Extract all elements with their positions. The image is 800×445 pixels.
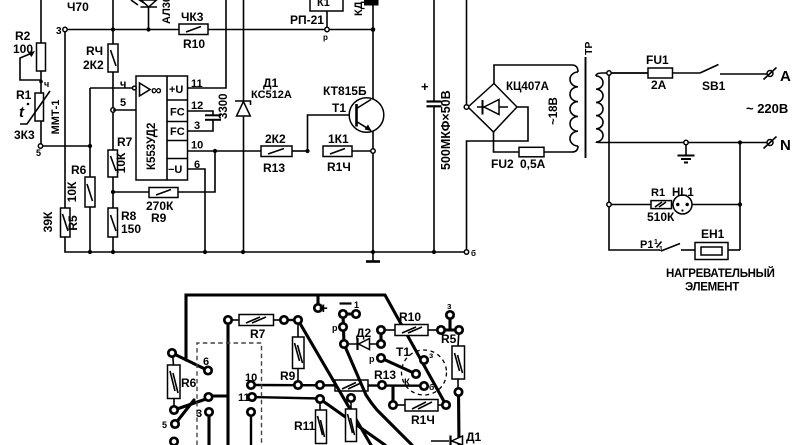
svg-text:1: 1 (659, 246, 663, 253)
svg-text:R1: R1 (16, 88, 32, 102)
svg-text:150: 150 (121, 222, 141, 236)
svg-text:Т1: Т1 (332, 101, 346, 115)
pcb resistor R14 (393, 400, 446, 428)
pin 12 wire (188, 111, 214, 115)
pin5 node circle (111, 108, 115, 112)
resistor R4 2K2 (83, 44, 118, 72)
svg-text:FU1: FU1 (646, 53, 669, 67)
pcb pads (168, 304, 462, 445)
bridge + output node (464, 105, 469, 110)
relay K1 RP-21 (290, 0, 343, 42)
resistor R2 100 (trimmer) (13, 29, 46, 80)
svg-text:R1: R1 (651, 187, 665, 199)
wire to R2 from top (40, 0, 42, 43)
relay contact P1.1 (640, 239, 695, 253)
R1 tap node (607, 202, 611, 206)
pcb trace vertical x228 (226, 320, 229, 445)
svg-text:з: з (429, 350, 433, 360)
resistor R13 2K2 (261, 132, 308, 175)
pcb trace to K pad (381, 358, 416, 374)
pcb resistor R6 (168, 353, 197, 410)
svg-text:R9: R9 (151, 211, 167, 225)
svg-text:2К2: 2К2 (83, 58, 104, 72)
pin 4 input wire (90, 87, 133, 89)
wire 470 resistor from top (112, 0, 114, 44)
op-amp U1 K553UD2 body (136, 76, 188, 180)
pcb diode D2 (344, 326, 381, 350)
svg-text:FC: FC (170, 107, 185, 119)
svg-text:~18В: ~18В (548, 97, 560, 125)
svg-text:1: 1 (654, 239, 658, 246)
svg-text:R11: R11 (294, 419, 316, 433)
svg-text:1К1: 1К1 (328, 132, 349, 146)
pcb T1 dashed circle (402, 350, 447, 395)
svg-text:10К: 10К (65, 181, 79, 202)
svg-text:К553УД2: К553УД2 (146, 123, 158, 170)
svg-text:FU2: FU2 (491, 157, 514, 171)
pcb trace vertical x209 (207, 412, 210, 445)
wire node5 to junction (43, 145, 90, 147)
pcb trace pad6 diag (172, 353, 208, 371)
svg-text:+U: +U (169, 84, 183, 96)
pcb resistor R11 (294, 399, 327, 444)
resistor R7 10K (108, 112, 133, 208)
pcb trace diag from R9 top (298, 320, 371, 445)
capacitor 3300 (205, 93, 230, 119)
phase tap wire down (608, 75, 610, 202)
N side vertical (739, 143, 741, 251)
svg-text:р: р (323, 33, 328, 42)
pcb trace node3 stub (448, 315, 451, 330)
terminal A (764, 68, 792, 86)
fuse FU2 0.5A (491, 147, 572, 171)
transformer TP secondary ~18V (548, 72, 578, 152)
node б rail end (464, 250, 468, 254)
pcb trace R5 down (457, 392, 461, 445)
svg-text:+: + (319, 300, 328, 317)
switch SB1 (700, 65, 767, 94)
resistor R6 10K (65, 146, 95, 252)
svg-text:р: р (332, 323, 338, 333)
svg-text:N: N (780, 137, 791, 154)
svg-text:Т1: Т1 (396, 345, 410, 359)
bridge AC top wire (494, 65, 578, 84)
svg-text:R5: R5 (66, 215, 80, 231)
svg-text:R6: R6 (181, 376, 197, 390)
top rail node3 to collector (67, 29, 373, 31)
svg-text:б: б (429, 382, 434, 392)
pcb trace plus stub (316, 295, 319, 308)
svg-text:РП-21: РП-21 (290, 13, 324, 27)
svg-text:RЧ: RЧ (86, 44, 103, 58)
svg-text:ММТ-1: ММТ-1 (50, 100, 62, 135)
pcb trace minus bar (343, 312, 356, 315)
svg-text:R13: R13 (263, 161, 285, 175)
wire R2 to R1 (40, 71, 42, 93)
heating element EH1 (666, 227, 775, 294)
wire node3 down to R5 (64, 32, 66, 209)
svg-text:10: 10 (245, 372, 257, 384)
neon lamp HL1 (672, 187, 741, 214)
svg-text:R1Ч: R1Ч (327, 160, 351, 174)
svg-text:А: А (780, 68, 791, 85)
LED AL307 (131, 0, 173, 32)
svg-text:К1: К1 (317, 0, 330, 9)
bridge - output wire to node b (467, 107, 529, 250)
svg-text:R8: R8 (121, 209, 137, 223)
svg-text:К: К (404, 377, 410, 388)
collector wire (372, 30, 374, 99)
svg-text:2А: 2А (651, 78, 667, 92)
svg-text:1: 1 (354, 300, 359, 310)
svg-text:R2: R2 (15, 29, 31, 43)
svg-text:500МКФ×50В: 500МКФ×50В (439, 90, 453, 170)
zener D1 KS512A (235, 0, 292, 252)
capacitor 500uF 50V (421, 0, 453, 252)
pcb trace P chain vertical (343, 314, 344, 344)
svg-text:Д1: Д1 (263, 76, 279, 90)
resistor R1 510K (611, 187, 675, 224)
pcb resistor R5 (441, 330, 465, 392)
pcb trace diag from pad P2 (344, 344, 412, 445)
pcb trace diag from R11 pad (320, 399, 385, 445)
svg-text:3: 3 (56, 26, 62, 37)
svg-text:~ 220В: ~ 220В (746, 101, 788, 116)
wire R4 to pin5 node (112, 72, 114, 108)
svg-text:+: + (421, 79, 429, 94)
terminal N (764, 137, 791, 155)
pin 5 input wire (113, 109, 136, 111)
pcb trace R14 up link (391, 386, 394, 403)
svg-text:R6: R6 (71, 163, 87, 177)
svg-text:ч: ч (44, 79, 49, 89)
svg-text:з: з (447, 301, 452, 311)
svg-text:Д1: Д1 (466, 430, 482, 444)
wire R1 to node 5 (40, 121, 42, 144)
svg-text:3: 3 (196, 408, 202, 420)
pcb trace stub (208, 394, 228, 397)
svg-text:510К: 510К (647, 210, 675, 224)
svg-text:HL1: HL1 (672, 187, 694, 199)
svg-text:6: 6 (203, 356, 209, 368)
resistor R9 270K feedback (113, 151, 215, 225)
svg-text:Р1: Р1 (640, 239, 653, 251)
svg-text:Д2: Д2 (356, 326, 372, 340)
pin 6 wire to rail (188, 169, 206, 252)
base wire (308, 115, 357, 151)
thermistor R1 MMT-1 3K3 (14, 88, 62, 142)
pcb resistor R12 (346, 398, 357, 442)
emitter wire and node (372, 131, 374, 149)
svg-text:КТ815Б: КТ815Б (323, 84, 367, 98)
svg-text:5: 5 (162, 420, 167, 430)
svg-text:R7: R7 (250, 327, 266, 341)
pcb trace pin11 line (252, 397, 320, 399)
node ч (4) (39, 80, 43, 84)
transformer core (585, 57, 587, 158)
pcb trace pad5 diag (175, 400, 194, 424)
pcb resistor R7 (228, 315, 298, 342)
svg-text:2К2: 2К2 (265, 132, 286, 146)
pcb trace pin10 line (251, 384, 424, 387)
svg-text:0,5А: 0,5А (520, 157, 546, 171)
svg-text:ТР: ТР (583, 42, 595, 55)
svg-text:R7: R7 (117, 135, 133, 149)
svg-text:R10: R10 (399, 310, 421, 324)
svg-text:100: 100 (13, 42, 33, 56)
fuse FU1 2A (611, 53, 700, 92)
chassis stub at emitter rail (372, 252, 374, 262)
svg-text:АЛ30: АЛ30 (161, 0, 173, 24)
pcb resistor R10 (381, 310, 441, 336)
svg-text:10: 10 (191, 140, 203, 152)
svg-text:3300: 3300 (218, 93, 230, 119)
svg-text:39К: 39К (41, 211, 55, 232)
pcb trace pad11b lead (250, 412, 252, 445)
svg-text:FC: FC (170, 126, 185, 138)
svg-text:R9: R9 (280, 369, 296, 383)
pcb resistor R9 (280, 320, 304, 385)
svg-text:11: 11 (238, 392, 250, 404)
svg-text:КД: КД (353, 1, 365, 16)
svg-text:5: 5 (120, 97, 126, 109)
pin 11 supply wire (188, 0, 227, 88)
bridge rectifier KC407A (468, 81, 549, 132)
svg-text:ЕН1: ЕН1 (701, 227, 725, 241)
svg-text:р: р (369, 354, 375, 364)
bottom rail (65, 237, 464, 252)
bridge AC bottom wire (494, 132, 520, 152)
transistor T1 KT815B (323, 84, 384, 132)
svg-text:3К3: 3К3 (14, 128, 35, 142)
node 5 (38, 144, 42, 148)
svg-text:Ч70: Ч70 (67, 0, 89, 14)
resistor R5 39K (41, 208, 80, 237)
resistor R14 1K1 (323, 132, 371, 174)
earth ground on N line (678, 140, 695, 162)
svg-text:НАГРЕВАТЕЛЬНЫЙ: НАГРЕВАТЕЛЬНЫЙ (666, 267, 775, 280)
diode KD across relay (353, 0, 379, 30)
svg-text:10К: 10К (114, 152, 128, 173)
svg-text:R13: R13 (374, 368, 396, 382)
svg-text:SB1: SB1 (702, 79, 726, 93)
pcb dashed IC outline (197, 343, 262, 445)
rail junction dots (88, 250, 92, 254)
pcb diode D1 (431, 430, 482, 445)
pcb trace pad3 diag (174, 398, 209, 410)
pin 10 output wire (188, 150, 262, 152)
svg-text:ЧК3: ЧК3 (181, 10, 204, 24)
svg-text:R1Ч: R1Ч (411, 413, 435, 427)
pcb resistor R13 (335, 380, 368, 391)
svg-text:−U: −U (168, 164, 182, 176)
svg-text:5: 5 (36, 148, 41, 158)
resistor R10 4K3 (179, 10, 208, 51)
svg-text:∞: ∞ (151, 82, 162, 99)
pcb supply trace top (186, 295, 446, 405)
N line (602, 142, 767, 144)
node 3 (63, 27, 67, 31)
transformer primary (596, 73, 648, 143)
pcb trace R10 right link (441, 328, 459, 331)
svg-text:R10: R10 (183, 37, 205, 51)
pin 3 wire (188, 120, 214, 131)
svg-text:КЦ407А: КЦ407А (506, 81, 549, 93)
primary top tap node (607, 71, 611, 75)
svg-text:КС512А: КС512А (251, 89, 292, 101)
svg-text:б: б (471, 249, 476, 258)
svg-text:ЭЛЕМЕНТ: ЭЛЕМЕНТ (685, 282, 739, 294)
resistor R8 150 (108, 208, 141, 252)
